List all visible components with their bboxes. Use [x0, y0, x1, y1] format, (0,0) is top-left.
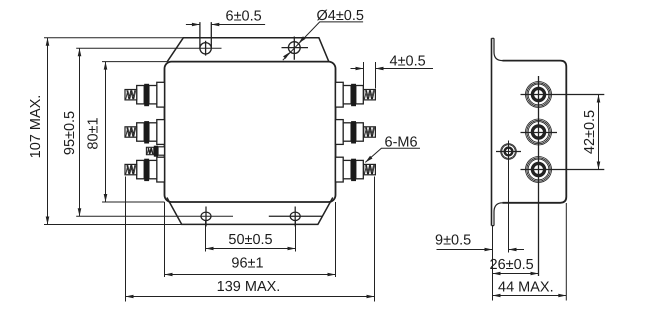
- right terminal 3: [336, 157, 376, 182]
- right terminal 2: [336, 120, 376, 145]
- dimension 42±0.5: [582, 95, 600, 170]
- svg-text:80±1: 80±1: [86, 117, 102, 149]
- svg-text:6±0.5: 6±0.5: [226, 9, 262, 25]
- bottom mounting flange: [167, 198, 333, 225]
- right terminal 1: [336, 82, 376, 107]
- svg-text:50±0.5: 50±0.5: [228, 232, 272, 248]
- bottom-right mounting hole: [269, 207, 323, 227]
- dimension 96±1: [165, 202, 336, 277]
- top mounting flange: [167, 38, 328, 62]
- bottom-left mounting hole: [201, 207, 211, 227]
- svg-text:44 MAX.: 44 MAX.: [498, 279, 554, 295]
- side terminal centerline: [538, 76, 540, 276]
- dimension 4±0.5: [351, 54, 434, 89]
- svg-text:9±0.5: 9±0.5: [435, 233, 471, 249]
- side terminal C: [521, 157, 605, 183]
- label 6-M6 leader: [365, 135, 420, 163]
- left ground stud: [146, 146, 164, 157]
- side extension lines: [493, 203, 567, 301]
- svg-text:Ø4±0.5: Ø4±0.5: [317, 8, 364, 24]
- dimension 44 MAX.: [493, 279, 567, 297]
- svg-text:6-M6: 6-M6: [385, 135, 418, 151]
- svg-text:139 MAX.: 139 MAX.: [217, 279, 281, 295]
- side view plate: [492, 38, 503, 225]
- dimension 6±0.5: [186, 9, 265, 27]
- side ground stud: [496, 141, 521, 253]
- side terminal B: [521, 119, 558, 145]
- dimension 107 MAX.: [28, 38, 49, 225]
- dimension Ø4±0.5 leader: [283, 8, 364, 60]
- left terminal 3: [125, 157, 165, 182]
- front view body: [165, 62, 336, 202]
- dimension 26±0.5: [490, 257, 539, 275]
- dimension 80±1: [86, 62, 108, 202]
- svg-text:42±0.5: 42±0.5: [582, 110, 598, 154]
- dimension 50±0.5: [206, 221, 296, 252]
- left terminal 2: [125, 120, 165, 145]
- left extension lines: [44, 38, 233, 225]
- side terminal A: [521, 82, 605, 108]
- top-left mounting slot: [200, 22, 211, 56]
- svg-text:107 MAX.: 107 MAX.: [28, 95, 44, 159]
- left terminal 1: [125, 82, 165, 107]
- dimension 139 MAX.: [126, 177, 375, 302]
- svg-text:95±0.5: 95±0.5: [62, 111, 78, 155]
- top-right mounting hole: [282, 37, 309, 60]
- dimension 95±0.5: [62, 48, 81, 216]
- svg-text:4±0.5: 4±0.5: [390, 54, 426, 70]
- svg-text:26±0.5: 26±0.5: [490, 257, 534, 273]
- svg-text:96±1: 96±1: [231, 256, 263, 272]
- dimension 9±0.5: [435, 233, 524, 252]
- side view body: [503, 61, 567, 203]
